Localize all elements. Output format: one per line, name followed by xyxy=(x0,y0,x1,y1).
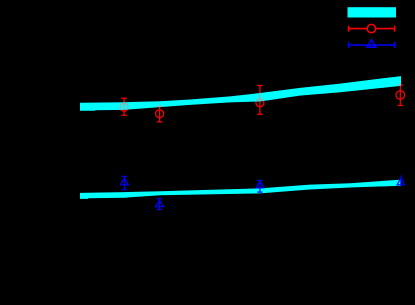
blue point B1 marker xyxy=(120,178,128,185)
red point R4 marker xyxy=(396,91,405,100)
blue data series (error bars + open triangles) drawn above bands xyxy=(120,175,404,209)
red point R2 marker xyxy=(156,110,164,118)
blue point B2 marker xyxy=(155,200,163,207)
red point R3 marker xyxy=(256,99,264,107)
legend blue entry (line + caps + triangle) xyxy=(348,40,395,48)
red series ghost (portions showing through the upper band) xyxy=(120,85,405,122)
blue point B4 error bar xyxy=(400,175,402,185)
red point R2 error bar xyxy=(157,106,163,122)
legend band swatch xyxy=(348,7,397,17)
red point R1 marker xyxy=(120,103,128,111)
red point R3 error bar xyxy=(257,86,263,115)
blue point B1 error bar xyxy=(122,176,127,189)
blue point B3 marker xyxy=(256,181,264,188)
blue point B3 error bar xyxy=(257,180,262,192)
ghost of R4 xyxy=(398,85,404,106)
red data series (error bars + open circles) drawn beneath bands xyxy=(120,85,405,122)
legend red entry (line + caps + circle) xyxy=(348,24,395,32)
ghost of R1 xyxy=(121,98,127,115)
red point R4 error bar xyxy=(398,85,404,106)
upper theory band (cyan) xyxy=(80,76,401,111)
blue point B2 error bar xyxy=(157,199,162,210)
red point R1 error bar xyxy=(121,98,127,115)
blue point B4 marker xyxy=(397,178,405,185)
ghost of R2 xyxy=(157,106,163,122)
lower theory band (cyan) xyxy=(80,180,401,199)
ghost of R3 xyxy=(257,86,263,115)
